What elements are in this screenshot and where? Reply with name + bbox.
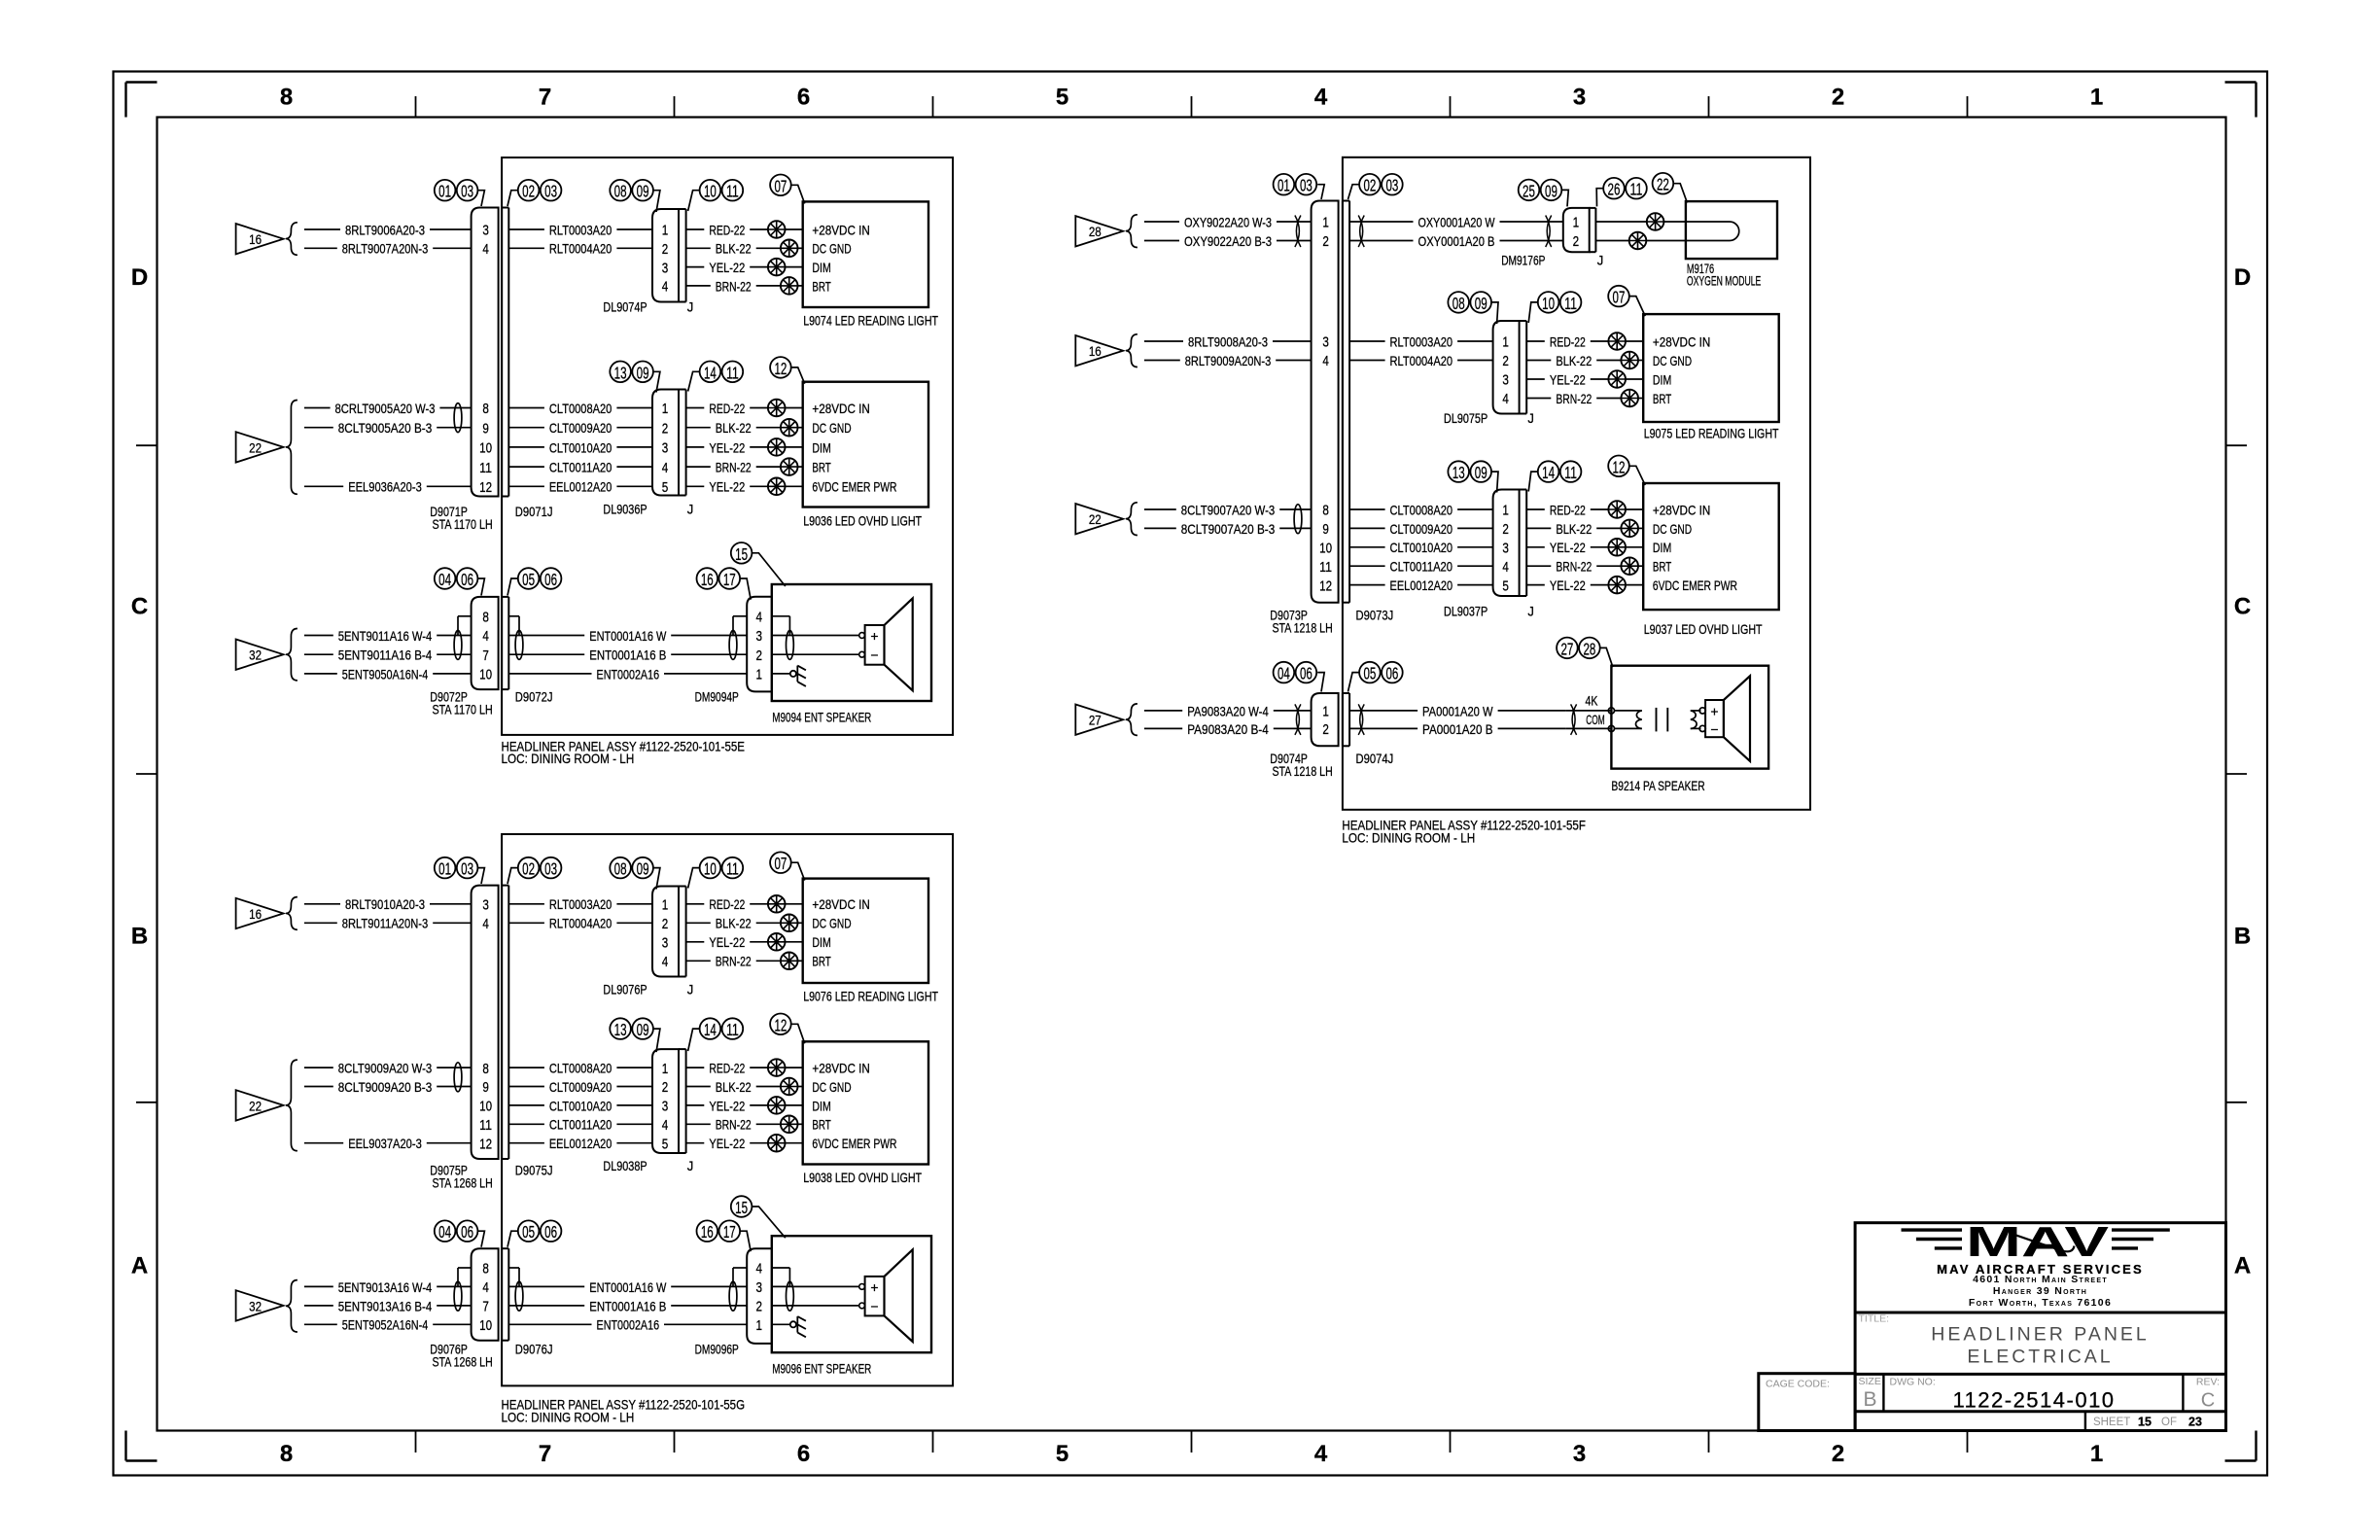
jumper pin 8 to wire pair at D9076J xyxy=(508,1267,519,1269)
svg-text:28: 28 xyxy=(1583,639,1595,658)
connector DL9076P xyxy=(652,887,686,977)
leader line to DL9038P xyxy=(653,1029,660,1052)
svg-text:11: 11 xyxy=(1564,463,1577,482)
wire 5ENT9050A16N-4 xyxy=(304,673,337,675)
svg-text:04: 04 xyxy=(438,1222,451,1242)
svg-text:9: 9 xyxy=(482,421,489,437)
component box L9075 LED READING LIGHT xyxy=(1643,314,1779,422)
wire CLT0009A20 xyxy=(1349,527,1385,529)
wire PA9083A20 B-4 xyxy=(1144,727,1182,729)
wire RLT0003A20 xyxy=(508,228,544,230)
svg-text:OXY0001A20 B: OXY0001A20 B xyxy=(1418,234,1495,249)
zone tick top 4 xyxy=(1191,96,1193,118)
connector DL9036P xyxy=(652,390,686,496)
svg-text:CLT0011A20: CLT0011A20 xyxy=(549,461,612,475)
svg-text:STA 1268 LH: STA 1268 LH xyxy=(432,1355,492,1370)
svg-text:A: A xyxy=(131,1252,148,1278)
wire BLK-22 xyxy=(1526,360,1551,362)
wire CLT0009A20 xyxy=(508,427,544,429)
wire 8CRLT9005A20 W-3 xyxy=(304,407,331,409)
connector DM9176P xyxy=(1563,208,1596,252)
connector body D9072P xyxy=(472,597,499,689)
brace flag 28 panel2 xyxy=(1126,215,1137,248)
wire 8RLT9006A20-3 xyxy=(304,228,340,230)
wire OXY0001A20 B xyxy=(1349,240,1413,242)
component box M9094 ENT SPEAKER xyxy=(772,584,931,701)
leader line to DL9037P J xyxy=(1528,472,1538,491)
balloon callout (05)(06) D9072J xyxy=(518,568,562,589)
svg-text:YEL-22: YEL-22 xyxy=(709,261,745,275)
svg-text:BRN-22: BRN-22 xyxy=(1556,560,1592,575)
svg-text:D9075J: D9075J xyxy=(515,1163,553,1177)
headliner panel assy 55G outline xyxy=(502,834,953,1385)
leader line to D9071P xyxy=(477,191,484,206)
component box L9036 LED OVHD LIGHT xyxy=(803,382,928,507)
svg-text:OF: OF xyxy=(2161,1417,2177,1428)
lamp symbol BLK-22 row 2 xyxy=(781,240,798,258)
svg-text:1: 1 xyxy=(1573,216,1580,231)
svg-text:3: 3 xyxy=(1573,85,1586,111)
svg-text:DC GND: DC GND xyxy=(812,242,851,257)
wire 8RLT9009A20N-3 xyxy=(1144,360,1180,362)
svg-text:DWG NO:: DWG NO: xyxy=(1890,1377,1936,1388)
balloon callout (12) L9037 LED OVHD LIGHT xyxy=(1608,456,1629,477)
lamp symbol BLK-22 row 2 xyxy=(781,1078,798,1096)
leader line to DL9038P J xyxy=(688,1029,700,1051)
svg-text:YEL-22: YEL-22 xyxy=(709,935,745,950)
svg-text:STA 1218 LH: STA 1218 LH xyxy=(1272,620,1332,635)
wire RED-22 xyxy=(686,228,705,230)
wire pin 3 to speaker + xyxy=(772,635,859,637)
svg-text:8CLT9007A20 W-3: 8CLT9007A20 W-3 xyxy=(1181,503,1276,517)
svg-text:1: 1 xyxy=(2090,85,2103,111)
svg-text:12: 12 xyxy=(1319,578,1332,594)
wire ENT0001A16 W xyxy=(508,635,584,637)
lamp symbol YEL-22 row 3 xyxy=(768,259,786,276)
lamp symbol BRN-22 row 4 xyxy=(781,1116,798,1134)
svg-text:2: 2 xyxy=(1832,1441,1844,1467)
svg-text:YEL-22: YEL-22 xyxy=(1550,372,1586,387)
svg-text:09: 09 xyxy=(637,859,649,879)
svg-text:4: 4 xyxy=(482,629,489,645)
svg-text:04: 04 xyxy=(438,570,451,589)
zone tick top 7 xyxy=(1967,96,1969,118)
source flag 27 panel2 PA xyxy=(1075,705,1123,735)
svg-text:4: 4 xyxy=(482,242,489,258)
svg-text:EEL9036A20-3: EEL9036A20-3 xyxy=(348,480,422,495)
leader line to DM9094P xyxy=(740,578,751,600)
svg-text:BLK-22: BLK-22 xyxy=(716,1080,752,1095)
connector receptacle plate D9075P receptacle xyxy=(501,886,503,1159)
svg-text:01: 01 xyxy=(438,859,451,879)
svg-text:1: 1 xyxy=(662,1062,669,1077)
wire lamp to box row 4 xyxy=(798,285,803,287)
balloon callout (16)(17) DM9096P xyxy=(697,1220,741,1242)
wire lamp to box row 2 xyxy=(798,1086,803,1088)
wire BRN-22 xyxy=(686,960,711,962)
svg-text:06: 06 xyxy=(461,570,473,589)
svg-text:10: 10 xyxy=(704,182,717,201)
logo speed line right 3 xyxy=(2112,1246,2138,1249)
svg-text:5ENT9013A16 B-4: 5ENT9013A16 B-4 xyxy=(338,1299,433,1313)
wire RLT0004A20 xyxy=(508,247,544,249)
svg-text:01: 01 xyxy=(438,182,451,201)
svg-text:DC GND: DC GND xyxy=(1653,522,1692,537)
twist symbol at DM9176P xyxy=(1546,216,1552,248)
svg-text:8CRLT9005A20 W-3: 8CRLT9005A20 W-3 xyxy=(335,402,436,416)
jumper pin 4 to wire pair left of DM9096P xyxy=(733,1267,747,1269)
connector body DM9096P xyxy=(747,1248,772,1344)
source flag 22 panel1 xyxy=(236,432,284,462)
svg-text:CLT0008A20: CLT0008A20 xyxy=(549,402,612,416)
wire lamp to box row 1 xyxy=(1626,340,1643,342)
leader line to L9076 LED READING LIGHT xyxy=(791,862,805,880)
svg-text:2: 2 xyxy=(1502,522,1509,538)
svg-text:15: 15 xyxy=(735,1198,748,1217)
svg-text:12: 12 xyxy=(774,359,787,378)
svg-text:09: 09 xyxy=(637,182,649,201)
source flag 28 panel2 xyxy=(1075,216,1123,246)
svg-text:4: 4 xyxy=(755,1262,762,1277)
balloon callout (15) M9096 ENT SPEAKER xyxy=(731,1196,752,1217)
svg-text:D9073J: D9073J xyxy=(1356,608,1394,622)
sheet label xyxy=(2093,1416,2202,1429)
svg-text:11: 11 xyxy=(1319,560,1332,576)
svg-text:DIM: DIM xyxy=(1653,372,1671,387)
svg-text:+28VDC IN: +28VDC IN xyxy=(812,223,870,237)
balloon callout (22) M9176 xyxy=(1653,173,1674,194)
leader line to L9036 LED OVHD LIGHT xyxy=(791,367,805,384)
brace flag 16 panel3 xyxy=(286,897,297,930)
svg-text:11: 11 xyxy=(726,859,739,879)
svg-text:ENT0001A16 B: ENT0001A16 B xyxy=(589,1299,666,1313)
wire YEL-22 xyxy=(1526,546,1545,548)
svg-text:4: 4 xyxy=(662,1118,669,1134)
connector receptacle plate D9076P receptacle xyxy=(501,1248,503,1341)
svg-text:D9076J: D9076J xyxy=(515,1343,553,1357)
svg-text:8: 8 xyxy=(482,611,489,626)
wire EEL0012A20 xyxy=(1349,584,1385,586)
svg-text:B: B xyxy=(2234,924,2251,950)
balloon callout (26)(11) DM9176P J xyxy=(1603,178,1647,199)
svg-text:PA0001A20 B: PA0001A20 B xyxy=(1422,722,1493,737)
svg-text:27: 27 xyxy=(1089,714,1102,728)
svg-text:PA9083A20 B-4: PA9083A20 B-4 xyxy=(1187,722,1269,737)
svg-text:2: 2 xyxy=(662,1080,669,1096)
wire 8CLT9007A20 W-3 xyxy=(1144,508,1176,510)
lamp symbol oxygen lamp 1 xyxy=(1647,213,1664,230)
leader line to D9073P xyxy=(1317,185,1324,199)
component box M9176 OXYGEN MODULE xyxy=(1686,201,1777,259)
svg-text:3: 3 xyxy=(755,1280,762,1296)
connector receptacle plate D9072P receptacle xyxy=(501,597,503,689)
balloon callout (01)(03) D9073P xyxy=(1274,174,1317,195)
logo speed line right 2 xyxy=(2112,1238,2153,1241)
source flag 22 panel2 xyxy=(1075,504,1123,534)
svg-text:B: B xyxy=(131,924,148,950)
wire RED-22 xyxy=(1526,340,1545,342)
wire BLK-22 xyxy=(1526,527,1551,529)
source flag 16 panel3 xyxy=(236,898,284,928)
svg-text:3: 3 xyxy=(662,936,669,952)
twisted-pair oval pair at D9072P left xyxy=(454,630,462,659)
svg-text:11: 11 xyxy=(726,182,739,201)
balloon callout (13)(09) DL9036P xyxy=(610,362,653,383)
svg-text:7: 7 xyxy=(539,85,551,111)
svg-text:8: 8 xyxy=(280,1441,293,1467)
lamp symbol YEL-22 row 3 xyxy=(768,438,786,456)
svg-text:SIZE: SIZE xyxy=(1859,1376,1881,1387)
lamp symbol BRN-22 row 4 xyxy=(781,458,798,475)
svg-text:YEL-22: YEL-22 xyxy=(709,440,745,455)
svg-text:8: 8 xyxy=(280,85,293,111)
svg-text:RED-22: RED-22 xyxy=(1550,334,1586,349)
svg-text:9: 9 xyxy=(1322,522,1329,538)
speaker terminal + xyxy=(1699,708,1705,714)
svg-text:CLT0009A20: CLT0009A20 xyxy=(549,1080,612,1095)
brace flag 22 panel3 xyxy=(286,1060,297,1151)
svg-text:BLK-22: BLK-22 xyxy=(716,242,752,257)
svg-text:7: 7 xyxy=(482,1300,489,1315)
zone tick bottom 5 xyxy=(1450,1431,1452,1453)
svg-text:SHEET: SHEET xyxy=(2093,1417,2130,1428)
svg-text:14: 14 xyxy=(704,1020,717,1039)
leader line to DL9074P J xyxy=(688,191,700,211)
wire RLT0004A20 xyxy=(1349,360,1385,362)
wire EEL9036A20-3 xyxy=(304,485,343,487)
corner mark bottom-right xyxy=(2225,1459,2257,1461)
svg-text:REV:: REV: xyxy=(2196,1377,2220,1388)
zone tick bottom 1 xyxy=(415,1431,417,1453)
connector receptacle plate D9074P receptacle xyxy=(1342,693,1344,746)
svg-text:4601 North Main Street: 4601 North Main Street xyxy=(1973,1274,2108,1285)
zone tick left 1 xyxy=(136,444,157,446)
wire CLT0011A20 xyxy=(1349,565,1385,567)
wire BLK-22 xyxy=(686,427,711,429)
sheet row divider xyxy=(2084,1412,2086,1431)
leader line to DL9036P J xyxy=(688,371,700,391)
component box B9214 PA SPEAKER xyxy=(1611,666,1768,769)
svg-text:YEL-22: YEL-22 xyxy=(1550,578,1586,593)
connector body D9075P xyxy=(472,886,499,1159)
twisted-pair oval pair at D9072J xyxy=(515,630,523,659)
svg-text:RLT0003A20: RLT0003A20 xyxy=(1390,334,1453,349)
svg-text:12: 12 xyxy=(479,480,492,496)
svg-text:DC GND: DC GND xyxy=(812,421,851,436)
balloon callout (04)(06) D9076P xyxy=(435,1220,478,1242)
wire COM tap to B9214 xyxy=(1566,727,1612,729)
svg-text:08: 08 xyxy=(614,182,627,201)
balloon callout (04)(06) D9074P xyxy=(1274,662,1317,683)
lamp symbol RED-22 row 1 xyxy=(1608,332,1626,350)
svg-text:DC GND: DC GND xyxy=(812,1080,851,1095)
svg-text:LOC: DINING ROOM - LH: LOC: DINING ROOM - LH xyxy=(1342,831,1475,846)
twist symbol at D9073J pins 1-2 xyxy=(1358,216,1364,248)
MAV logo xyxy=(1966,1218,2110,1266)
svg-text:RLT0003A20: RLT0003A20 xyxy=(549,897,612,912)
lamp symbol BLK-22 row 2 xyxy=(781,915,798,932)
twisted-pair oval pair at D9073P pins 8-9 xyxy=(1294,505,1302,534)
twist symbol at D9074P pins 1-2 xyxy=(1295,704,1301,735)
source flag 22 panel3 xyxy=(236,1090,284,1120)
svg-text:B9214 PA SPEAKER: B9214 PA SPEAKER xyxy=(1611,779,1704,793)
svg-text:RLT0004A20: RLT0004A20 xyxy=(549,242,612,257)
svg-text:+: + xyxy=(870,1279,878,1295)
leader line to DM9176P J xyxy=(1596,189,1603,207)
twisted-pair oval pair at D9076J xyxy=(515,1281,523,1311)
wire CLT0011A20 xyxy=(508,1123,544,1125)
svg-text:11: 11 xyxy=(726,1020,739,1039)
corner mark bottom-left xyxy=(126,1459,157,1461)
svg-text:5ENT9050A16N-4: 5ENT9050A16N-4 xyxy=(342,667,429,682)
svg-text:BRT: BRT xyxy=(812,461,831,475)
svg-text:RED-22: RED-22 xyxy=(1550,503,1586,517)
leader line to L9037 LED OVHD LIGHT xyxy=(1629,466,1645,485)
leader line to D9072J xyxy=(507,578,518,596)
wire pin 1 to chassis ground xyxy=(772,673,791,675)
wire BLK-22 xyxy=(686,247,711,249)
wire lamp to box row 2 xyxy=(798,427,803,429)
lamp symbol YEL-22 row 5 xyxy=(768,478,786,496)
jumper pin 4 to wire pair inside M9096 ENT SPEAKER xyxy=(772,1267,790,1269)
wire OXY pin2 to module xyxy=(1595,240,1628,242)
svg-text:04: 04 xyxy=(1277,664,1290,683)
headliner panel assy 55E outline xyxy=(502,157,953,735)
svg-text:C: C xyxy=(2234,594,2251,620)
svg-text:+28VDC IN: +28VDC IN xyxy=(812,897,870,912)
svg-text:DIM: DIM xyxy=(812,261,830,275)
svg-text:16: 16 xyxy=(701,570,714,589)
balloon callout (14)(11) DL9036P J side xyxy=(700,362,744,383)
connector body D9074P xyxy=(1312,693,1339,746)
svg-text:8CLT9009A20 B-3: 8CLT9009A20 B-3 xyxy=(338,1080,433,1095)
svg-text:3: 3 xyxy=(1502,542,1509,557)
twisted-pair oval pair inside M9096 ENT SPEAKER xyxy=(787,1281,794,1311)
svg-text:CLT0010A20: CLT0010A20 xyxy=(549,440,612,455)
wire PA0001A20 B xyxy=(1349,727,1417,729)
twisted-pair oval pair at D9071P pins 8-9 xyxy=(454,403,462,433)
balloon callout (13)(09) DL9038P xyxy=(610,1018,653,1039)
svg-text:03: 03 xyxy=(461,859,473,879)
svg-text:03: 03 xyxy=(544,859,557,879)
zone tick bottom 3 xyxy=(932,1431,934,1453)
svg-text:ENT0001A16 W: ENT0001A16 W xyxy=(589,629,666,644)
svg-text:16: 16 xyxy=(249,232,262,247)
wire 8CLT9009A20 B-3 xyxy=(304,1086,333,1088)
svg-text:6VDC EMER PWR: 6VDC EMER PWR xyxy=(1653,578,1737,593)
svg-text:02: 02 xyxy=(522,859,535,879)
wire 8CLT9009A20 W-3 xyxy=(304,1067,333,1068)
zone tick left 2 xyxy=(136,773,157,775)
svg-text:ENT0002A16: ENT0002A16 xyxy=(597,667,660,682)
lamp symbol BLK-22 row 2 xyxy=(781,419,798,437)
svg-text:DL9037P: DL9037P xyxy=(1444,604,1487,618)
wire lamp to box row 1 xyxy=(1626,508,1643,510)
twist symbol at D9074J pins 1-2 xyxy=(1358,704,1364,735)
svg-text:RLT0004A20: RLT0004A20 xyxy=(549,917,612,931)
brace flag 32 panel3 xyxy=(286,1280,297,1332)
wire RED-22 xyxy=(1526,508,1545,510)
balloon callout (14)(11) DL9037P J side xyxy=(1538,461,1582,482)
lamp symbol BLK-22 row 2 xyxy=(1621,520,1638,538)
svg-text:HEADLINER PANEL: HEADLINER PANEL xyxy=(1931,1324,2150,1346)
svg-text:5: 5 xyxy=(662,1137,669,1152)
svg-text:4: 4 xyxy=(662,461,669,476)
lamp symbol RED-22 row 1 xyxy=(768,400,786,417)
zone tick bottom 2 xyxy=(674,1431,676,1453)
wire YEL-22 xyxy=(686,446,705,448)
svg-text:4: 4 xyxy=(1502,392,1509,407)
svg-text:D: D xyxy=(2234,264,2251,291)
balloon callout (01)(03) D9071P xyxy=(435,180,478,201)
jumper pin 8 to wire pair at D9072J xyxy=(508,615,519,617)
svg-text:9: 9 xyxy=(482,1080,489,1096)
zone tick bottom 4 xyxy=(1191,1431,1193,1453)
wire lamp to box row 3 xyxy=(1626,546,1643,548)
svg-text:+28VDC IN: +28VDC IN xyxy=(1653,503,1711,517)
wire RED-22 xyxy=(686,407,705,409)
svg-text:4: 4 xyxy=(482,917,489,932)
wire 8RLT9007A20N-3 xyxy=(304,247,337,249)
transformer secondary winding xyxy=(1691,711,1701,729)
svg-text:2: 2 xyxy=(662,421,669,437)
wire PA0001A20 W xyxy=(1349,710,1417,712)
svg-text:13: 13 xyxy=(614,363,627,382)
svg-text:YEL-22: YEL-22 xyxy=(709,1099,745,1113)
svg-text:BRT: BRT xyxy=(812,279,831,294)
transformer primary winding xyxy=(1615,711,1642,729)
wire lamp to box row 2 xyxy=(1638,527,1643,529)
balloon callout (01)(03) D9075P xyxy=(435,857,478,879)
svg-text:4: 4 xyxy=(482,1280,489,1296)
svg-text:CLT0011A20: CLT0011A20 xyxy=(549,1118,612,1133)
svg-text:ENT0001A16 W: ENT0001A16 W xyxy=(589,1280,666,1295)
leader line to D9074P xyxy=(1317,673,1324,692)
svg-text:L9037 LED OVHD LIGHT: L9037 LED OVHD LIGHT xyxy=(1644,622,1763,637)
wire CLT0008A20 xyxy=(1349,508,1385,510)
svg-text:05: 05 xyxy=(1363,664,1376,683)
svg-text:4: 4 xyxy=(662,280,669,296)
svg-text:12: 12 xyxy=(774,1015,787,1034)
balloon callout (10)(11) DL9075P J side xyxy=(1538,292,1582,313)
svg-text:D9071J: D9071J xyxy=(515,505,553,519)
svg-text:DL9075P: DL9075P xyxy=(1444,411,1487,426)
wire BLK-22 xyxy=(686,922,711,924)
svg-text:06: 06 xyxy=(1385,664,1398,683)
svg-text:23: 23 xyxy=(2188,1416,2202,1429)
wire RED-22 xyxy=(686,1067,705,1068)
svg-text:3: 3 xyxy=(1573,1441,1586,1467)
balloon callout (16)(17) DM9094P xyxy=(697,568,741,589)
wire BRN-22 xyxy=(686,466,711,468)
svg-text:+28VDC IN: +28VDC IN xyxy=(1653,334,1711,349)
wire lamp to box row 3 xyxy=(786,1104,803,1106)
lamp symbol oxygen lamp 2 xyxy=(1629,232,1647,250)
balloon callout (13)(09) DL9037P xyxy=(1448,461,1491,482)
svg-text:4: 4 xyxy=(662,955,669,970)
title block dwg row divider xyxy=(1855,1410,2225,1413)
twisted-pair oval pair inside M9094 ENT SPEAKER xyxy=(787,630,794,659)
wire OXY0001A20 W xyxy=(1349,221,1413,223)
wire CLT0010A20 xyxy=(508,446,544,448)
wire lamp to box row 4 xyxy=(1638,398,1643,400)
inner border frame xyxy=(157,118,2226,1431)
leader line to M9096 ENT SPEAKER xyxy=(752,1207,785,1238)
wire 8CLT9007A20 B-3 xyxy=(1144,527,1176,529)
wire ENT0001A16 B xyxy=(508,1305,584,1307)
jumper pin 4 to wire pair left of DM9094P xyxy=(733,615,747,617)
wire lamp to box row 1 xyxy=(786,407,803,409)
